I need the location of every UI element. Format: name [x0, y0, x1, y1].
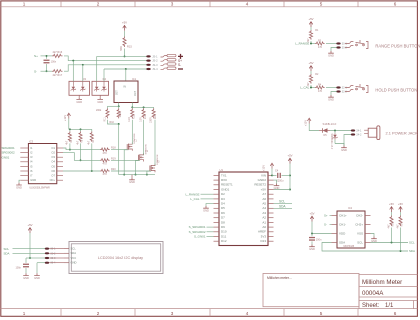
diode D5 — [323, 128, 328, 132]
svg-text:+5V: +5V — [27, 223, 32, 227]
svg-text:O1: O1 — [51, 146, 55, 150]
wire R7 bottom — [91, 143, 93, 171]
svg-text:+12V: +12V — [262, 165, 266, 171]
wire pullup top rail — [69, 128, 92, 130]
wire LCD gnd down — [36, 263, 38, 274]
svg-text:4: 4 — [246, 311, 249, 316]
svg-text:R18: R18 — [111, 147, 116, 150]
diode D6 TVS — [334, 131, 336, 134]
wire R3 to pad — [326, 43, 337, 45]
ground C7 — [309, 245, 315, 247]
svg-text:24-2: 24-2 — [356, 134, 362, 137]
wire TVS to ground — [335, 144, 344, 146]
svg-text:SCL: SCL — [71, 247, 77, 251]
wire U1 SDA — [274, 207, 293, 209]
svg-text:GND: GND — [71, 261, 77, 265]
svg-text:20k0: 20k0 — [119, 111, 122, 117]
svg-text:NTD4906N: NTD4906N — [157, 154, 159, 165]
svg-text:R5: R5 — [70, 139, 73, 143]
svg-text:R13: R13 — [144, 114, 147, 119]
svg-text:A4: A4 — [262, 206, 266, 210]
frame top band line — [1, 6, 418, 8]
svg-text:SET: SET — [116, 90, 119, 95]
wire T3 source — [147, 171, 151, 174]
svg-text:5: 5 — [320, 2, 323, 7]
wire S- to IC2 — [330, 224, 332, 226]
wire +5V down to pin — [289, 164, 291, 190]
svg-text:D11: D11 — [221, 234, 227, 238]
pad 33-3 — [45, 257, 49, 259]
resistor R10 — [117, 108, 120, 118]
svg-text:A3: A3 — [262, 211, 266, 215]
wire T2 drain — [143, 120, 145, 155]
svg-text:S_GN01: S_GN01 — [194, 235, 206, 239]
wire U1 SCL — [274, 203, 293, 205]
diode array D3 — [69, 81, 90, 95]
ground R1 cluster — [328, 51, 334, 53]
wire T2 source — [136, 161, 140, 175]
svg-text:O6: O6 — [51, 169, 55, 173]
svg-text:6: 6 — [394, 2, 397, 7]
pad JS-2 — [146, 60, 150, 62]
wire L_CAL row — [310, 87, 315, 89]
terminal - mark — [178, 68, 183, 70]
svg-text:R6: R6 — [81, 139, 84, 143]
wire R19 to T2 gate — [111, 159, 139, 161]
wire S+ lead — [41, 55, 53, 57]
svg-text:4k7 R17: 4k7 R17 — [53, 73, 63, 77]
svg-text:R11: R11 — [103, 117, 106, 122]
svg-text:24-1: 24-1 — [356, 130, 362, 133]
svg-text:D3: D3 — [221, 197, 225, 201]
wire GND row — [37, 262, 45, 264]
pad 30-1 — [336, 42, 340, 44]
svg-text:GND: GND — [328, 54, 334, 58]
wire to U1 D12 — [207, 231, 214, 233]
svg-text:SMBJ12A-13-F: SMBJ12A-13-F — [330, 134, 333, 150]
svg-text:30-1: 30-1 — [342, 43, 348, 46]
ground R2 cluster — [328, 95, 334, 97]
svg-text:C4: C4 — [275, 170, 279, 173]
svg-text:470: 470 — [103, 173, 108, 176]
svg-text:R12: R12 — [133, 114, 136, 119]
svg-text:D12: D12 — [221, 239, 227, 243]
svg-text:NTD4906N: NTD4906N — [134, 133, 136, 144]
comment box — [263, 274, 359, 307]
wire VCC row — [30, 257, 45, 259]
resistor R20 — [100, 169, 110, 172]
svg-text:U1: U1 — [220, 168, 224, 172]
transistor T3 — [149, 166, 151, 172]
svg-text:VSS: VSS — [357, 231, 363, 235]
resistor R11 — [106, 108, 109, 118]
jumper row3 — [161, 64, 168, 66]
ground IC2 — [371, 237, 377, 239]
svg-text:JS-2: JS-2 — [152, 59, 158, 63]
IC IC2 ADC — [337, 211, 365, 248]
capacitor C7 100n — [311, 234, 313, 237]
wire T1 drain — [131, 120, 133, 144]
svg-text:R10: R10 — [110, 121, 115, 124]
pad 30-2 — [336, 46, 340, 48]
wire SDA row — [13, 252, 46, 254]
svg-text:R8: R8 — [392, 223, 395, 227]
svg-text:5: 5 — [320, 311, 323, 316]
resistor R1 — [310, 27, 312, 30]
svg-text:D8: D8 — [221, 220, 225, 224]
ground MOSFET rail — [131, 175, 133, 178]
svg-text:OUT: OUT — [134, 90, 137, 96]
wire set rail — [108, 105, 119, 107]
IC3 pin stubs right — [57, 148, 63, 180]
svg-text:AREF: AREF — [258, 230, 266, 234]
svg-text:+5V: +5V — [389, 202, 394, 206]
wire +5V to VDD — [311, 222, 313, 234]
wire source rail — [119, 174, 155, 176]
svg-text:TX1: TX1 — [221, 173, 227, 177]
resistor R4 — [315, 86, 325, 89]
svg-text:A7: A7 — [262, 192, 266, 196]
svg-text:1: 1 — [23, 2, 26, 7]
svg-text:I1: I1 — [30, 146, 33, 150]
svg-text:CH2-: CH2- — [356, 213, 363, 217]
svg-text:IC3: IC3 — [29, 139, 34, 143]
pad 32-1 — [336, 86, 340, 88]
pad 24-2 — [351, 133, 355, 135]
svg-text:D10: D10 — [221, 230, 227, 234]
wire divider bottoms — [108, 120, 119, 124]
svg-text:L_CAL: L_CAL — [190, 197, 200, 201]
terminal + mark — [178, 54, 183, 59]
svg-text:MCP3425: MCP3425 — [344, 245, 355, 248]
wire IC3 out2 to R19 — [63, 153, 100, 161]
capacitor C15 100n — [44, 60, 50, 61]
svg-text:R2: R2 — [315, 73, 319, 76]
svg-text:A0: A0 — [262, 225, 266, 229]
svg-text:200k: 200k — [96, 109, 102, 112]
svg-text:3V3: 3V3 — [261, 234, 267, 238]
svg-text:D4: D4 — [103, 77, 107, 81]
wire R8 to SCL — [391, 228, 393, 243]
svg-text:33-2: 33-2 — [50, 252, 56, 255]
svg-text:D5: D5 — [324, 134, 328, 137]
svg-text:470: 470 — [103, 163, 108, 166]
svg-text:GND: GND — [309, 247, 315, 251]
svg-text:GND: GND — [30, 178, 36, 182]
svg-text:GND1: GND1 — [221, 187, 230, 191]
svg-text:R4: R4 — [318, 83, 322, 86]
svg-text:SRG0001: SRG0001 — [2, 146, 16, 150]
resistor R19 — [100, 159, 110, 162]
switch HOLD PUSH BUTTON — [345, 86, 353, 88]
capacitor C8 100n — [26, 257, 30, 259]
svg-text:32-2: 32-2 — [342, 91, 348, 94]
svg-text:1: 1 — [23, 311, 26, 316]
svg-text:100n: 100n — [316, 239, 322, 242]
resistor R8 — [391, 212, 393, 216]
svg-text:S_SRG0002: S_SRG0002 — [189, 230, 206, 234]
svg-text:A1: A1 — [262, 220, 266, 224]
connector 2.1 power jack — [364, 130, 368, 134]
svg-text:R9: R9 — [401, 223, 404, 227]
wire VSS to ground — [371, 234, 375, 237]
svg-text:D4: D4 — [221, 202, 225, 206]
svg-text:O3: O3 — [51, 155, 55, 159]
svg-text:3: 3 — [171, 2, 174, 7]
wire R20 to T3 gate — [111, 170, 150, 172]
title block box — [359, 275, 417, 309]
wire IC3 out1 to R18 — [63, 148, 100, 150]
svg-text:470: 470 — [318, 90, 323, 93]
svg-text:GND: GND — [34, 276, 40, 280]
svg-text:470: 470 — [103, 152, 108, 155]
svg-text:+5V: +5V — [398, 202, 403, 206]
svg-text:+5V: +5V — [287, 153, 292, 157]
svg-text:RESET1: RESET1 — [221, 183, 233, 187]
jumper row4 — [161, 68, 168, 70]
resistor R2 — [310, 71, 312, 74]
IC3 pin stubs left — [20, 148, 28, 180]
svg-text:O4: O4 — [51, 160, 55, 164]
svg-text:4k7: 4k7 — [66, 140, 69, 145]
svg-text:GN01: GN01 — [2, 155, 10, 159]
svg-text:+5V: +5V — [308, 61, 313, 65]
resistor R13 — [142, 108, 145, 118]
svg-text:6: 6 — [394, 311, 397, 316]
resistor R3 — [315, 42, 325, 45]
svg-text:SDA: SDA — [339, 240, 345, 244]
svg-text:S1KB-13-F: S1KB-13-F — [323, 122, 337, 126]
svg-text:2.1 POWER JACK: 2.1 POWER JACK — [386, 130, 419, 135]
svg-text:CH1+: CH1+ — [339, 213, 347, 217]
svg-text:4k7: 4k7 — [396, 224, 399, 229]
wire T3 drain — [154, 120, 156, 166]
wire pad2 to ground — [344, 135, 351, 146]
resistor R12 — [131, 108, 134, 118]
wire IC1 out rail — [131, 103, 133, 108]
svg-text:SCL: SCL — [279, 200, 285, 204]
svg-text:D2: D2 — [221, 192, 225, 196]
svg-text:JS-3: JS-3 — [152, 63, 158, 67]
svg-text:+5V: +5V — [261, 187, 266, 191]
svg-text:+5V: +5V — [308, 17, 313, 21]
svg-text:R24: R24 — [154, 114, 157, 119]
svg-text:IC1: IC1 — [132, 77, 137, 81]
svg-text:O5: O5 — [51, 164, 55, 168]
transistor T2 — [138, 155, 140, 161]
svg-text:D9: D9 — [221, 225, 225, 229]
wire R5 bottom — [69, 143, 71, 149]
wire R6 bottom — [80, 143, 82, 160]
svg-text:S-: S- — [34, 70, 37, 74]
capacitor C4 2200u — [272, 174, 277, 176]
svg-text:S+: S+ — [34, 54, 38, 58]
svg-text:SDA: SDA — [71, 251, 77, 255]
svg-text:2: 2 — [97, 311, 100, 316]
svg-text:SDA: SDA — [4, 252, 10, 256]
svg-text:Sheet:: Sheet: — [362, 303, 380, 309]
svg-text:GND: GND — [76, 100, 82, 104]
wire divider to source rail — [118, 124, 120, 175]
IC U1 main controller — [219, 172, 268, 246]
wire L_CAL to U1 — [201, 198, 214, 200]
svg-text:R7: R7 — [92, 139, 95, 143]
wire SCL bus — [371, 242, 409, 244]
wire SCL row — [13, 248, 46, 250]
wire IC1 set to divider — [118, 103, 120, 107]
op-amp IC1 regulator — [114, 81, 138, 103]
svg-text:D13: D13 — [260, 239, 266, 243]
resistor R16 — [52, 54, 63, 57]
svg-text:33-4: 33-4 — [50, 262, 56, 265]
svg-text:NTD4906N: NTD4906N — [146, 144, 148, 155]
svg-text:A6: A6 — [262, 197, 266, 201]
pad JS-3 — [146, 64, 150, 66]
svg-text:S-: S- — [178, 63, 181, 67]
svg-text:D3: D3 — [83, 77, 87, 81]
svg-text:2200u: 2200u — [277, 179, 285, 182]
svg-text:A2: A2 — [262, 216, 266, 220]
resistor R5 — [68, 131, 71, 142]
svg-text:30-2: 30-2 — [342, 47, 348, 50]
IC2 pin stubs — [332, 216, 371, 243]
svg-text:470: 470 — [318, 46, 323, 49]
svg-text:LCD2004 16x2 I2C display: LCD2004 16x2 I2C display — [98, 256, 143, 260]
resistor R15 — [123, 37, 126, 48]
svg-text:VCC: VCC — [71, 256, 77, 260]
wire S+ to IC2 — [330, 215, 332, 217]
wire R18 to T1 gate — [111, 149, 127, 151]
svg-text:GND: GND — [341, 148, 347, 152]
ground D3 — [78, 95, 80, 97]
svg-text:Milliohm Meter: Milliohm Meter — [362, 279, 402, 286]
frame column dividers — [61, 1, 358, 316]
pad 32-2 — [336, 90, 340, 92]
svg-text:SCL: SCL — [409, 241, 415, 245]
IC IC3 driver — [28, 144, 56, 184]
wire pad2 to ground — [331, 92, 337, 96]
wire +5V pin — [274, 189, 291, 191]
svg-text:GND: GND — [16, 185, 22, 189]
svg-text:R19: R19 — [111, 157, 116, 160]
svg-text:SCL: SCL — [4, 247, 10, 251]
svg-text:+12V: +12V — [63, 115, 67, 121]
frame bottom band line — [1, 308, 418, 310]
wire +5V to VCC row — [29, 233, 31, 258]
svg-text:100n: 100n — [51, 61, 57, 64]
svg-text:D6: D6 — [221, 211, 225, 215]
svg-text:GND: GND — [274, 186, 280, 190]
wire S- lead — [41, 70, 53, 72]
wire pad2 to ground — [331, 48, 337, 52]
wire D4 right pin to row4 — [103, 69, 105, 81]
svg-text:I3: I3 — [30, 155, 33, 159]
ground C8 — [23, 273, 29, 275]
svg-text:R20: R20 — [111, 168, 116, 171]
transistor T1 — [126, 144, 128, 150]
ground jack — [341, 146, 347, 148]
wire +12V down — [68, 119, 70, 130]
svg-text:SDA: SDA — [409, 249, 415, 253]
svg-text:+12V: +12V — [304, 120, 308, 126]
ground U1 right — [274, 180, 277, 183]
svg-text:RX0: RX0 — [221, 178, 227, 182]
svg-text:3: 3 — [171, 311, 174, 316]
svg-text:CH1-: CH1- — [339, 222, 346, 226]
wire IC3 out3 to R20 — [63, 170, 100, 172]
ground LCD — [34, 273, 40, 275]
svg-text:CH2+: CH2+ — [355, 222, 363, 226]
svg-text:A5: A5 — [262, 202, 266, 206]
wire to U1 D13 — [207, 236, 214, 238]
svg-text:I6: I6 — [30, 169, 33, 173]
diode array D4 — [92, 81, 109, 95]
wire row2 S+ line — [64, 56, 149, 61]
svg-text:S-: S- — [324, 223, 327, 227]
resistor R7 — [90, 131, 93, 142]
wire R15 to row1 — [124, 31, 126, 37]
svg-text:33-1: 33-1 — [50, 248, 56, 251]
pad 33-4 — [45, 262, 49, 264]
wire +12V to VIN — [271, 169, 273, 176]
svg-text:4k7 R16: 4k7 R16 — [53, 50, 63, 54]
svg-text:100n: 100n — [16, 267, 22, 270]
resistor R9 — [400, 212, 402, 216]
svg-text:ULN2003LSNPWR: ULN2003LSNPWR — [29, 187, 50, 190]
switch RANGE PUSH BUTTON — [345, 42, 353, 44]
svg-text:GND: GND — [203, 209, 209, 213]
svg-text:10R: 10R — [139, 117, 142, 122]
svg-text:00004A: 00004A — [362, 290, 384, 297]
svg-text:S_SRG0001: S_SRG0001 — [189, 225, 206, 229]
svg-text:O7: O7 — [51, 174, 55, 178]
svg-text:O2: O2 — [51, 151, 55, 155]
svg-text:4: 4 — [246, 2, 249, 7]
svg-text:SRG0002: SRG0002 — [2, 151, 16, 155]
resistor R17 — [52, 70, 63, 73]
svg-text:L_RANGE: L_RANGE — [295, 42, 309, 46]
svg-text:R15: R15 — [127, 45, 132, 49]
svg-text:JS-4: JS-4 — [152, 67, 158, 71]
resistor R6 — [79, 131, 82, 142]
wire R4 to pad — [326, 87, 337, 89]
wire L_RANGE row — [310, 43, 315, 45]
LCD pin stubs — [64, 249, 69, 263]
svg-text:GND: GND — [129, 180, 135, 184]
svg-text:Milliohm meter...: Milliohm meter... — [267, 276, 292, 280]
svg-text:SCL: SCL — [357, 240, 363, 244]
ground U1 left — [206, 204, 214, 206]
wire to U1 D11 — [207, 226, 214, 228]
wire R9 to SDA — [400, 228, 402, 252]
svg-text:1R0: 1R0 — [128, 117, 131, 122]
svg-text:GND2: GND2 — [258, 178, 267, 182]
svg-text:HOLD PUSH BUTTON: HOLD PUSH BUTTON — [375, 88, 417, 93]
wire T1 source — [124, 150, 128, 175]
svg-text:32-1: 32-1 — [342, 87, 348, 90]
svg-text:+5V: +5V — [309, 211, 314, 215]
LCD module box — [69, 242, 163, 274]
svg-text:RESET2: RESET2 — [254, 183, 266, 187]
ground IC3 — [19, 180, 20, 183]
wire L_RANGE to U1 — [201, 193, 214, 195]
svg-text:IC2: IC2 — [348, 206, 353, 210]
svg-text:I7: I7 — [30, 174, 33, 178]
U1 pin stubs — [214, 175, 274, 241]
jumper row1 — [161, 56, 168, 58]
svg-text:GND: GND — [23, 276, 29, 280]
svg-text:RANGE PUSH BUTTON: RANGE PUSH BUTTON — [375, 44, 420, 49]
